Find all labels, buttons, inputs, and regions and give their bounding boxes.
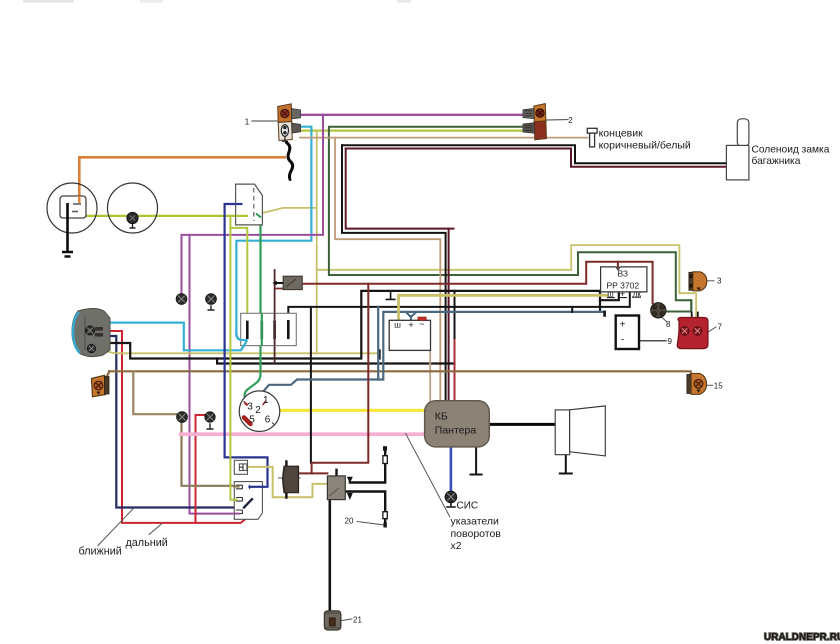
svg-text:СИС: СИС bbox=[457, 501, 479, 512]
svg-text:3: 3 bbox=[247, 401, 253, 412]
svg-text:9: 9 bbox=[668, 337, 673, 346]
svg-text:21: 21 bbox=[353, 615, 362, 624]
svg-text:URALDNEPR.RU: URALDNEPR.RU bbox=[764, 632, 840, 643]
svg-text:ВЗ: ВЗ bbox=[618, 269, 629, 279]
svg-text:+: + bbox=[620, 320, 626, 331]
svg-text:2: 2 bbox=[568, 116, 573, 125]
svg-text:3: 3 bbox=[717, 277, 722, 286]
svg-text:+: + bbox=[620, 289, 625, 299]
svg-text:коричневый/белый: коричневый/белый bbox=[599, 140, 691, 152]
svg-text:7: 7 bbox=[718, 323, 723, 332]
svg-text:ш: ш bbox=[394, 320, 401, 330]
svg-text:~: ~ bbox=[419, 319, 424, 329]
svg-text:поворотов: поворотов bbox=[451, 528, 502, 540]
svg-text:КБ: КБ bbox=[435, 411, 448, 423]
svg-text:2: 2 bbox=[255, 405, 261, 416]
svg-text:-: - bbox=[621, 335, 624, 346]
svg-text:указатели: указатели bbox=[451, 516, 500, 528]
svg-text:дальний: дальний bbox=[126, 537, 168, 549]
svg-text:лк: лк bbox=[633, 289, 642, 298]
svg-text:1: 1 bbox=[245, 118, 250, 127]
svg-text:ш: ш bbox=[607, 289, 613, 298]
svg-text:Соленоид замка: Соленоид замка bbox=[752, 145, 830, 156]
svg-text:5: 5 bbox=[249, 414, 255, 425]
svg-text:6: 6 bbox=[265, 414, 271, 425]
svg-text:+: + bbox=[408, 320, 414, 331]
svg-text:8: 8 bbox=[666, 320, 671, 329]
svg-text:концевик: концевик bbox=[599, 128, 644, 140]
svg-text:ближний: ближний bbox=[79, 546, 122, 558]
svg-text:Пантера: Пантера bbox=[435, 425, 477, 437]
svg-text:1: 1 bbox=[263, 395, 269, 406]
svg-text:х2: х2 bbox=[451, 540, 462, 552]
svg-text:20: 20 bbox=[345, 517, 354, 526]
svg-text:багажника: багажника bbox=[752, 155, 801, 167]
svg-text:15: 15 bbox=[714, 382, 723, 391]
